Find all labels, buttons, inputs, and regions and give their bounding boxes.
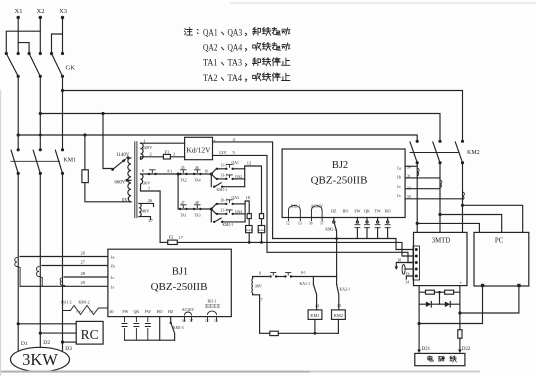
svg-text:10: 10	[205, 170, 209, 174]
wire bracket upper	[244, 166, 246, 187]
wire phase A to motor	[17, 173, 19, 351]
node D1 tap	[17, 322, 20, 325]
wire D21 drop	[418, 286, 420, 351]
svg-text:37: 37	[320, 222, 324, 226]
link TW to bus A	[375, 218, 380, 239]
svg-text:1a: 1a	[397, 165, 401, 170]
BJ2-1 output pins 12 13	[286, 206, 302, 226]
svg-text:0V: 0V	[122, 199, 129, 204]
svg-text:1c: 1c	[110, 275, 114, 280]
svg-text:HZ: HZ	[168, 309, 174, 314]
button QA4 branch	[216, 209, 245, 215]
svg-text:40V: 40V	[142, 209, 150, 214]
wire D21 to PC pin L	[419, 287, 482, 323]
svg-text:X2: X2	[37, 8, 45, 15]
svg-text:KM1-1: KM1-1	[217, 188, 228, 192]
svg-text:TA1: TA1	[180, 214, 187, 218]
svg-text:KA2-1: KA2-1	[340, 287, 351, 291]
contactor coil KM1	[308, 310, 322, 333]
node branch point lower	[210, 208, 213, 211]
terminal strip on 3MTD	[413, 246, 420, 280]
svg-text:36V: 36V	[143, 181, 151, 186]
wire S1 pin2 via F1	[141, 157, 185, 159]
node X3	[59, 8, 67, 19]
svg-text:1140V: 1140V	[116, 153, 130, 158]
node col1 tap	[17, 133, 20, 136]
wire KM2 col3 down	[462, 163, 464, 233]
winding 36V (KM coil supply)	[252, 270, 263, 302]
node D3 tap	[61, 341, 64, 344]
svg-text:BJ1-1: BJ1-1	[207, 300, 216, 304]
BJ2 bottom labels	[291, 204, 391, 214]
thermal elements QA1-2 KM1-2	[61, 300, 108, 314]
contactor KM2 pole3	[455, 140, 464, 165]
svg-text:12V: 12V	[219, 150, 228, 155]
wire S3 pin27 stub	[139, 217, 151, 220]
wire foot bus	[125, 339, 175, 341]
svg-text:TA1: TA1	[203, 59, 218, 69]
svg-text:17: 17	[179, 235, 184, 240]
BJ1 left pins 1a/1b/1c/1s	[110, 255, 115, 290]
wire pin33 to CT3	[405, 198, 462, 200]
svg-text:TA3: TA3	[228, 59, 243, 69]
svg-text:HO: HO	[385, 209, 391, 214]
wire pin32 to CT2 bottom	[405, 188, 440, 190]
node chain tap	[177, 173, 180, 176]
wire phase B down	[39, 76, 41, 150]
wire output 5 (12V)	[213, 150, 268, 253]
wire bracket lower	[244, 201, 246, 222]
svg-text:6: 6	[142, 168, 145, 173]
link FW to bus A	[355, 218, 360, 239]
wire X1 crossover to switch2	[18, 43, 29, 54]
svg-text:25: 25	[337, 303, 341, 308]
wire X2 crossover to switch1	[6, 31, 40, 53]
wire mid drop	[439, 292, 441, 304]
node branch point upper	[210, 173, 213, 176]
button 1 on KM chain	[269, 273, 285, 278]
contact blade to QA4 branch	[211, 209, 216, 214]
button TA2 (chain)	[179, 166, 188, 183]
wire D22 to PC pin R	[460, 287, 519, 313]
svg-text:12: 12	[286, 222, 290, 226]
wire bus C to terminal t3	[267, 252, 413, 262]
wire KM return bus	[278, 332, 338, 334]
wire phase C down	[62, 76, 64, 150]
node resistor mid	[438, 291, 441, 294]
wire KM2 col2 down	[439, 163, 441, 233]
wire S2 pin6 to chain	[141, 173, 148, 175]
svg-text:21-1: 21-1	[221, 209, 228, 213]
contact KM2-2 under HZ pin	[325, 218, 336, 239]
svg-text:47: 47	[181, 201, 185, 205]
svg-text:4: 4	[233, 137, 236, 142]
CT1 wrap on phase A	[15, 258, 20, 287]
wire HO foot	[159, 317, 161, 341]
contact KA1-1	[300, 277, 320, 310]
svg-text:1s: 1s	[110, 284, 114, 289]
diode rail	[419, 303, 460, 305]
wire coil top to chain	[253, 277, 269, 279]
button TA3 (chain lower)	[179, 201, 188, 218]
resistor R21	[426, 290, 435, 294]
svg-text:QK: QK	[134, 309, 140, 314]
svg-text:FW: FW	[122, 309, 128, 314]
svg-text:660V: 660V	[114, 180, 126, 185]
wire coil bottom return	[253, 293, 270, 333]
svg-text:3: 3	[173, 152, 176, 157]
svg-text:6: 6	[259, 270, 261, 275]
PC bottom pin L	[481, 284, 484, 287]
svg-text:32: 32	[407, 185, 411, 190]
ground arrow at t3	[395, 258, 414, 270]
tap 0V	[122, 199, 131, 204]
wire bus to KM2 pole2	[40, 114, 440, 142]
svg-text:46: 46	[195, 166, 199, 170]
svg-text:12: 12	[247, 161, 251, 166]
wire S2 pin7 down to F2 bus	[141, 184, 161, 242]
wire lower chain drop	[177, 174, 179, 209]
button TA1 (chain)	[148, 170, 157, 175]
svg-text:FW: FW	[145, 309, 151, 314]
resistor R (starting)	[82, 135, 130, 202]
node X2	[37, 8, 45, 19]
node col1 to PC	[416, 222, 419, 225]
svg-text:KM2-2: KM2-2	[325, 228, 336, 232]
svg-text:F1: F1	[165, 150, 170, 155]
monitor box PC	[474, 232, 529, 286]
button QA2 branch	[216, 174, 245, 180]
svg-text:QA1-2: QA1-2	[61, 300, 72, 304]
svg-text:QA1: QA1	[232, 161, 239, 165]
node KA2 foot	[260, 241, 263, 244]
relay coil KA1	[246, 226, 253, 243]
svg-text:QA1: QA1	[203, 28, 218, 38]
contactor KM1 pole3	[55, 148, 64, 175]
contact blade to QA1 branch	[211, 169, 216, 174]
contact KM2-1 branch	[211, 209, 245, 227]
CT sensor on col3	[463, 192, 465, 200]
svg-text:QA3: QA3	[228, 28, 243, 38]
wire bus to KM2 pole1	[18, 135, 417, 141]
svg-text:TA4: TA4	[194, 179, 201, 183]
svg-text:QBZ-250IIB: QBZ-250IIB	[311, 175, 368, 187]
link FW foot	[122, 317, 127, 341]
svg-text:20-1: 20-1	[221, 199, 228, 203]
electromagnet box	[415, 353, 465, 365]
wire selector feed	[103, 114, 113, 169]
resistor R22	[445, 290, 454, 294]
diode V21	[426, 302, 432, 308]
button 2 on KM chain	[284, 271, 336, 278]
wire bus to KM2 pole3	[63, 91, 463, 142]
fuse F2 on return bus	[160, 235, 184, 245]
svg-text:BJ1: BJ1	[172, 267, 188, 278]
transformer secondary 220V	[141, 139, 154, 160]
link HO to bus A	[385, 218, 390, 239]
node D21 junction	[418, 322, 421, 325]
wire pin30 to CT1	[405, 165, 417, 167]
svg-text:36: 36	[182, 319, 186, 323]
BJ1-1 output pins 12 13	[205, 311, 218, 323]
wire KM2-2 down to 36V chain	[336, 239, 338, 277]
svg-text:2: 2	[150, 152, 152, 157]
svg-text:KM1: KM1	[63, 158, 76, 164]
contactor KM1 pole1	[11, 148, 20, 175]
button QA3 branch	[216, 196, 245, 205]
node D22 junction	[458, 311, 461, 314]
svg-text:8-1: 8-1	[301, 271, 306, 275]
svg-text:GK: GK	[66, 65, 76, 72]
svg-text:1b: 1b	[397, 175, 402, 180]
wire phase A down	[17, 76, 19, 150]
node KM2-2 on bus A	[335, 237, 338, 240]
transformer T1 primary winding	[128, 158, 131, 202]
svg-text:3MTD: 3MTD	[432, 238, 451, 245]
button QA1 branch	[216, 161, 245, 170]
button TA5 (chain lower)	[193, 201, 202, 218]
svg-text:QK: QK	[364, 209, 370, 214]
wire KM2 linkage	[410, 152, 458, 154]
svg-text:PC: PC	[495, 238, 504, 245]
svg-text:RC: RC	[81, 327, 99, 342]
svg-text:TA4: TA4	[228, 74, 243, 84]
wire X1 down	[17, 18, 19, 54]
svg-text:QA2: QA2	[203, 44, 218, 54]
svg-text:D2: D2	[43, 340, 50, 346]
svg-text:3KW: 3KW	[22, 350, 58, 369]
wire KM2 col1 down	[416, 163, 418, 233]
svg-text:KM2: KM2	[334, 313, 343, 318]
fuse on KM return	[270, 331, 279, 335]
svg-text:AC36V: AC36V	[182, 307, 195, 312]
wire D22 drop upper	[459, 286, 461, 330]
svg-text:37: 37	[190, 319, 194, 323]
svg-text:D21: D21	[422, 347, 431, 352]
wire D22 drop lower	[459, 338, 461, 351]
node selector tap	[101, 112, 104, 115]
fuse on D22	[458, 330, 462, 339]
svg-text:27: 27	[81, 259, 86, 264]
node resistor tap	[83, 133, 86, 136]
wire X2 down	[39, 18, 41, 54]
protector BJ1 box	[108, 249, 231, 316]
link FW2 foot	[145, 317, 150, 341]
BJ1 bottom labels	[110, 300, 217, 314]
svg-text:QBZ-250IIB: QBZ-250IIB	[151, 281, 208, 293]
wire phase B to motor	[39, 173, 41, 347]
fuse on KA1 feed	[247, 214, 251, 219]
PC bottom pin R	[517, 284, 520, 287]
transformer secondary 40V	[139, 198, 154, 223]
wire KM1 linkage	[11, 160, 60, 162]
svg-text:38: 38	[398, 258, 402, 262]
svg-text:13: 13	[298, 222, 302, 226]
svg-text:TA3: TA3	[194, 214, 201, 218]
BJ2 AC36V pins 36 37	[309, 206, 324, 226]
switch GK pole 3	[50, 52, 64, 78]
BJ1 AC36V pins 36 37	[182, 312, 193, 323]
wire phase C to motor	[62, 173, 64, 351]
link QK foot	[134, 317, 139, 341]
node X1	[15, 8, 23, 19]
node col3 to PC	[461, 204, 464, 207]
svg-text:33: 33	[407, 194, 411, 199]
node col2 tap	[39, 112, 42, 115]
wire 27 to BJ1	[42, 259, 108, 265]
contact KM1-1 branch	[211, 174, 244, 192]
wire col2 to PC	[440, 215, 502, 233]
svg-text:X1: X1	[15, 8, 23, 15]
wire 29 common return	[20, 280, 108, 286]
node col2 to PC	[438, 213, 441, 216]
contact KM1-3 under HZ	[170, 317, 184, 341]
svg-text:TA2: TA2	[180, 179, 187, 183]
rectifier module Kd/12V	[185, 137, 217, 159]
svg-text:KA1-1: KA1-1	[300, 282, 311, 286]
driver box 3MTD	[414, 232, 468, 286]
svg-text:KA2: KA2	[258, 228, 265, 232]
svg-text:36: 36	[309, 222, 313, 226]
svg-text:KM2: KM2	[467, 150, 480, 156]
wire 26 to BJ1	[20, 250, 108, 256]
contactor KM1 pole2	[33, 148, 42, 175]
svg-text:24: 24	[315, 303, 319, 308]
contact blade to QA2 branch	[211, 174, 216, 179]
wire pin31 to CT2	[405, 177, 440, 179]
switch GK pole 2	[28, 52, 42, 78]
link QK to bus A	[365, 218, 370, 239]
note text block (vector CJK)	[184, 27, 290, 84]
svg-text:18: 18	[246, 195, 251, 200]
CT3 wrap on phase C	[60, 278, 65, 286]
arrow D21	[417, 350, 421, 354]
motor 3KW	[11, 347, 70, 371]
wire S1 pin1 to Kd	[141, 142, 185, 144]
wire phase A to RC	[18, 323, 76, 325]
wire phase B to RC	[40, 332, 76, 334]
svg-text:BJ2: BJ2	[332, 160, 348, 171]
svg-text:D3: D3	[65, 346, 72, 352]
svg-text:26: 26	[81, 250, 86, 255]
contact blade to QA3 branch	[211, 204, 216, 209]
wire output 12 to KA2	[245, 161, 262, 214]
svg-text:26: 26	[148, 198, 153, 203]
node KM1 foot	[314, 332, 317, 335]
svg-text:34: 34	[406, 280, 410, 284]
wire X3 crossover	[52, 34, 63, 54]
svg-text:D1: D1	[21, 341, 28, 347]
wire phase C to RC	[63, 341, 77, 343]
node col3 tap	[61, 89, 64, 92]
svg-text:13: 13	[214, 319, 218, 323]
fuse on KA2 feed	[259, 214, 263, 219]
arrow D22	[458, 350, 462, 354]
wire output 4	[213, 137, 273, 239]
svg-text:Kd/12V: Kd/12V	[186, 145, 211, 154]
contactor KM2 pole2	[433, 140, 442, 165]
svg-text:X3: X3	[59, 8, 67, 15]
svg-text:11-1: 11-1	[221, 163, 228, 167]
CT sensor on col1	[417, 168, 419, 176]
svg-text:1s: 1s	[397, 193, 401, 198]
svg-text:45: 45	[181, 166, 185, 170]
protector BJ2 box	[282, 149, 405, 218]
wire control chain upper	[147, 173, 211, 175]
svg-text:13-1: 13-1	[221, 174, 228, 178]
CT sensor on col2	[440, 180, 442, 188]
svg-text:1b: 1b	[406, 272, 410, 276]
svg-text:KA1: KA1	[246, 228, 253, 232]
svg-text:40: 40	[110, 309, 114, 314]
resistor rail	[419, 291, 460, 293]
selector blade with arrow	[111, 158, 126, 171]
tap 660V	[114, 179, 131, 186]
stub 34 at t5	[406, 276, 414, 284]
capacitor at t4	[402, 264, 413, 276]
wire output 18 to KA1	[245, 195, 251, 214]
svg-text:5: 5	[233, 150, 236, 155]
tap 1140V	[116, 153, 130, 160]
svg-text:FW: FW	[354, 209, 360, 214]
diode V22	[445, 302, 451, 308]
svg-text:KM1-2: KM1-2	[79, 300, 90, 304]
svg-text:QA4: QA4	[228, 44, 243, 54]
svg-text:KM1: KM1	[310, 313, 319, 318]
svg-text:48: 48	[195, 201, 199, 205]
wire col3 to PC	[463, 205, 523, 232]
svg-text:HO: HO	[343, 209, 349, 214]
RC protection box	[76, 321, 103, 344]
node D2 tap	[39, 332, 42, 335]
svg-text:1c: 1c	[397, 184, 401, 189]
svg-text:220V: 220V	[143, 145, 154, 150]
CT2 wrap on phase B	[37, 267, 43, 287]
svg-text:KM2-1: KM2-1	[223, 223, 234, 227]
svg-text:F2: F2	[169, 235, 174, 240]
wire col1 to PC	[417, 223, 479, 232]
contactor KM2 pole1	[410, 140, 419, 165]
svg-text:1a: 1a	[110, 255, 114, 260]
wire 28 to BJ1	[64, 271, 108, 277]
wire bus A to terminal t1	[273, 239, 413, 250]
svg-text:QA3: QA3	[232, 196, 239, 200]
node col2 cross dot	[39, 134, 42, 137]
svg-text:HZ: HZ	[331, 209, 337, 214]
svg-text:8-1: 8-1	[168, 169, 173, 173]
switch GK pole 1	[5, 52, 20, 78]
fuse F1	[163, 150, 175, 159]
svg-text:D22: D22	[462, 347, 471, 352]
svg-text:TW: TW	[374, 209, 380, 214]
svg-text:1b: 1b	[110, 264, 115, 269]
contactor coil KM2	[332, 310, 346, 333]
transformer T1 core	[135, 142, 137, 218]
node KA1 foot	[248, 241, 251, 244]
svg-text:KM1-3: KM1-3	[173, 326, 184, 330]
transformer secondary 36V	[141, 168, 152, 192]
svg-text:1W: 1W	[76, 310, 82, 314]
svg-text:29: 29	[81, 280, 86, 285]
button TA4 (chain)	[193, 166, 202, 183]
svg-text:HO: HO	[157, 309, 163, 314]
svg-text:12: 12	[205, 319, 209, 323]
svg-text:7: 7	[261, 297, 263, 302]
wire S3 pin26 stub	[139, 203, 154, 206]
wire X3 down	[62, 18, 64, 54]
relay coil KA2	[258, 226, 265, 243]
contact KA2-1	[337, 277, 351, 310]
